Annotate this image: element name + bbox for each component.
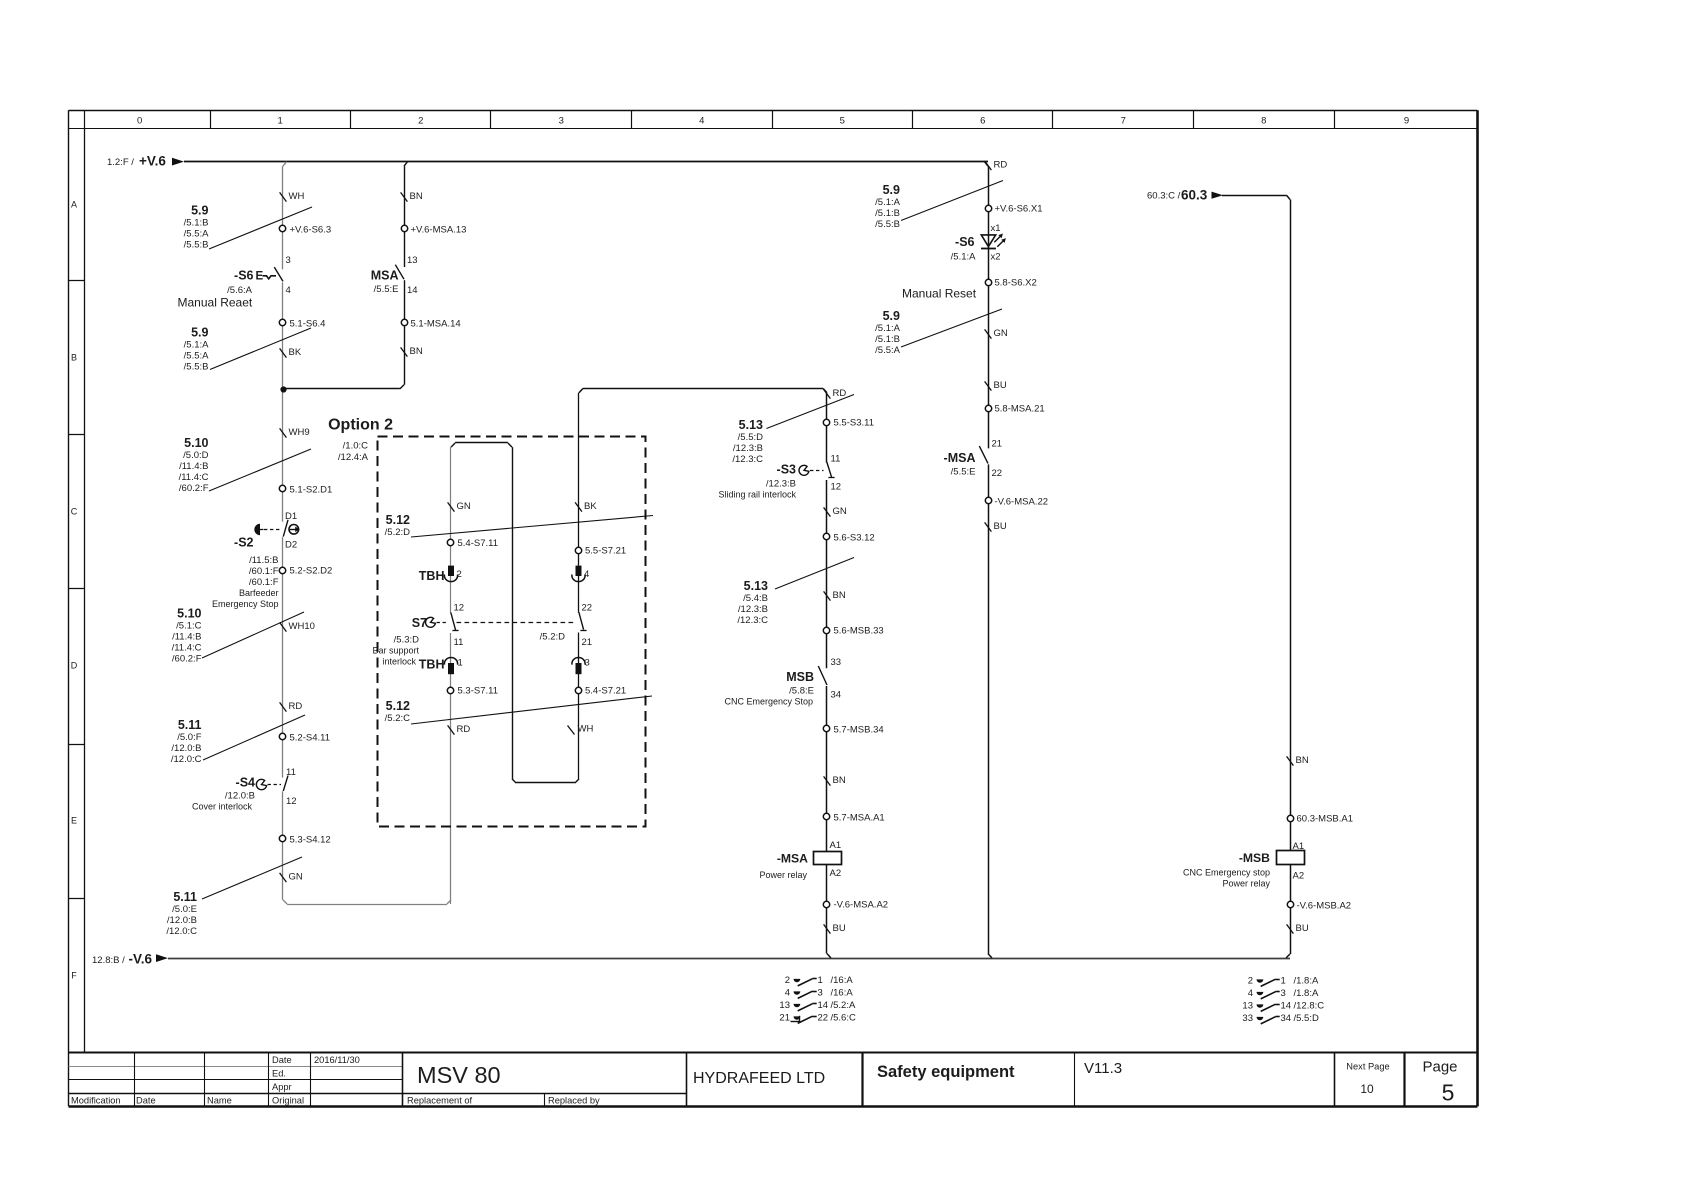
svg-text:5.3-S4.12: 5.3-S4.12	[290, 835, 331, 846]
cross-reference 5.12 (S7 top)	[385, 513, 653, 538]
cross-reference 5.12 (S7 bottom)	[385, 696, 652, 724]
cross-reference 5.13 (S3 bottom)	[737, 558, 854, 627]
svg-text:TBH: TBH	[419, 569, 445, 583]
svg-text:/5.1:A: /5.1:A	[951, 252, 976, 263]
svg-text:x2: x2	[991, 252, 1001, 263]
svg-text:/5.5:A: /5.5:A	[875, 345, 900, 356]
svg-text:/1.0:C: /1.0:C	[343, 441, 368, 452]
wire colour mark BN	[401, 346, 423, 357]
svg-text:BU: BU	[1296, 923, 1309, 934]
svg-text:33: 33	[1242, 1013, 1253, 1024]
svg-text:+V.6-S6.X1: +V.6-S6.X1	[995, 204, 1043, 215]
terminal 60.3-MSB.A1	[1287, 814, 1353, 825]
LED indicator -S6 X1/X2	[951, 223, 1006, 263]
cross-reference 5.11 (S4 bottom)	[166, 857, 302, 937]
svg-text:D2: D2	[285, 540, 297, 551]
wire colour mark WH9	[280, 427, 310, 438]
terminal 5.2-S4.11	[279, 733, 330, 744]
svg-text:WH: WH	[578, 724, 594, 735]
cross-reference 5.9 (right bottom)	[875, 309, 1002, 356]
svg-text:BU: BU	[994, 380, 1007, 391]
svg-text:/12.3:C: /12.3:C	[732, 454, 763, 465]
svg-text:/11.4:B: /11.4:B	[172, 632, 201, 643]
svg-text:C: C	[71, 506, 78, 516]
svg-text:/5.8:E: /5.8:E	[789, 686, 814, 697]
svg-text:HYDRAFEED LTD: HYDRAFEED LTD	[693, 1070, 825, 1087]
svg-text:BN: BN	[833, 775, 846, 786]
cross-reference 5.11 (S4 top)	[171, 715, 305, 765]
svg-text:CNC Emergency Stop: CNC Emergency Stop	[724, 697, 813, 707]
terminal 5.7-MSB.34	[823, 725, 883, 736]
svg-text:/60.1:F: /60.1:F	[249, 577, 279, 588]
svg-text:11: 11	[454, 637, 464, 648]
svg-text:V11.3: V11.3	[1084, 1060, 1122, 1077]
svg-text:/12.3:B: /12.3:B	[733, 443, 763, 454]
svg-text:/5.5:B: /5.5:B	[184, 240, 209, 251]
svg-text:/5.2:D: /5.2:D	[385, 527, 410, 538]
svg-text:-S3: -S3	[777, 463, 797, 477]
svg-text:E: E	[256, 271, 264, 283]
terminal +V.6-S6.X1	[985, 204, 1042, 215]
plug connector TBH pins 4/3 (right)	[572, 566, 590, 675]
svg-text:BK: BK	[584, 501, 597, 512]
svg-text:0: 0	[137, 115, 142, 126]
svg-text:5.2-S2.D2: 5.2-S2.D2	[290, 566, 333, 577]
svg-text:WH10: WH10	[289, 621, 315, 632]
svg-text:/5.5:B: /5.5:B	[184, 362, 209, 373]
svg-text:5.9: 5.9	[883, 183, 900, 197]
svg-text:5.1-MSA.14: 5.1-MSA.14	[411, 319, 461, 330]
svg-text:5.13: 5.13	[744, 579, 768, 593]
svg-text:5.10: 5.10	[184, 436, 208, 450]
terminal -V.6-MSA.A2	[823, 900, 888, 911]
wire colour mark WH10	[280, 621, 315, 632]
svg-text:BN: BN	[1296, 755, 1309, 766]
terminal 5.5-S3.11	[823, 418, 874, 429]
svg-text:2: 2	[1248, 975, 1253, 986]
svg-text:1.2:F /: 1.2:F /	[107, 157, 134, 168]
svg-text:14: 14	[407, 285, 418, 296]
terminal 5.1-S6.4	[279, 319, 325, 330]
svg-text:CNC Emergency stop: CNC Emergency stop	[1183, 867, 1270, 877]
svg-text:1: 1	[278, 115, 283, 126]
svg-text:/5.5:D: /5.5:D	[738, 432, 763, 443]
svg-text:5.8-S6.X2: 5.8-S6.X2	[995, 278, 1037, 289]
svg-text:-MSA: -MSA	[944, 451, 976, 465]
svg-text:5.7-MSB.34: 5.7-MSB.34	[834, 725, 884, 736]
svg-text:14: 14	[818, 1000, 829, 1011]
svg-text:/5.1:B: /5.1:B	[184, 218, 209, 229]
terminal -V.6-MSB.A2	[1287, 901, 1351, 912]
svg-text:5.12: 5.12	[386, 699, 410, 713]
svg-text:/5.1:C: /5.1:C	[176, 621, 201, 632]
svg-text:/12.0:C: /12.0:C	[166, 926, 197, 937]
svg-text:/12.4:A: /12.4:A	[338, 452, 369, 463]
svg-text:3: 3	[818, 987, 823, 998]
svg-text:BU: BU	[994, 521, 1007, 532]
contact MSA 13/14 (self holding)	[371, 255, 418, 296]
svg-text:-S2: -S2	[234, 536, 254, 550]
svg-text:3: 3	[286, 255, 291, 266]
svg-text:Cover interlock: Cover interlock	[192, 802, 253, 812]
svg-text:5: 5	[1442, 1080, 1455, 1106]
svg-text:Next Page: Next Page	[1346, 1062, 1389, 1072]
svg-text:/16:A: /16:A	[831, 975, 854, 986]
svg-text:F: F	[71, 970, 77, 980]
title block	[69, 1053, 1478, 1107]
terminal +V.6-S6.3	[279, 225, 331, 236]
svg-text:5.11: 5.11	[173, 890, 197, 904]
svg-text:5.3-S7.11: 5.3-S7.11	[458, 686, 499, 697]
svg-text:/60.2:F: /60.2:F	[179, 483, 209, 494]
svg-text:A: A	[71, 199, 77, 209]
contact MSB 33/34 CNC emergency stop	[724, 657, 841, 707]
wire colour mark BN	[824, 775, 846, 786]
Option 2 dashed boundary box	[328, 417, 645, 827]
svg-text:RD: RD	[289, 701, 303, 712]
terminal 5.6-MSB.33	[823, 626, 883, 637]
svg-text:5.11: 5.11	[178, 718, 202, 732]
terminal 5.1-S2.D1	[279, 485, 332, 496]
svg-text:RD: RD	[457, 724, 471, 735]
svg-text:/60.2:F: /60.2:F	[172, 654, 202, 665]
wire colour mark BK	[575, 501, 597, 512]
svg-text:/60.1:F: /60.1:F	[249, 566, 279, 577]
svg-text:4: 4	[1248, 988, 1253, 999]
svg-text:5.1-S6.4: 5.1-S6.4	[290, 319, 326, 330]
svg-text:MSV 80: MSV 80	[417, 1062, 501, 1088]
cross-reference 5.9 (right top)	[875, 181, 1003, 231]
svg-text:D: D	[71, 660, 78, 670]
svg-text:/12.0:B: /12.0:B	[171, 743, 201, 754]
terminal 5.1-MSA.14	[401, 319, 460, 330]
svg-text:/5.1:B: /5.1:B	[875, 334, 900, 345]
wire branch LED/MSA-21-22 (x=988)	[984, 162, 992, 958]
svg-text:/5.5:E: /5.5:E	[374, 284, 399, 295]
svg-text:RD: RD	[833, 388, 847, 399]
svg-text:E: E	[71, 815, 77, 825]
svg-text:9: 9	[1404, 115, 1409, 126]
svg-text:RD: RD	[994, 160, 1008, 171]
wire branch 2 (MSA 13/14 reset, x=404)	[283, 162, 408, 389]
svg-text:A2: A2	[1293, 871, 1305, 882]
svg-text:22: 22	[818, 1012, 829, 1023]
svg-text:-S6: -S6	[234, 269, 254, 283]
wire S7 left branch (x=451)	[450, 447, 452, 904]
svg-text:Sliding rail interlock: Sliding rail interlock	[718, 490, 796, 500]
contact -MSA 21/22 (indicator path)	[944, 439, 1003, 480]
svg-text:/5.2:C: /5.2:C	[385, 713, 410, 724]
svg-text:/11.4:C: /11.4:C	[179, 472, 209, 483]
svg-text:/16:A: /16:A	[831, 987, 854, 998]
svg-text:-V.6-MSB.A2: -V.6-MSB.A2	[1297, 901, 1352, 912]
svg-text:/5.5:B: /5.5:B	[875, 219, 900, 230]
terminal 5.6-S3.12	[823, 533, 874, 544]
svg-text:interlock: interlock	[382, 657, 416, 667]
svg-text:MSB: MSB	[786, 670, 814, 684]
wire colour mark BU	[985, 521, 1007, 532]
svg-text:12: 12	[286, 796, 297, 807]
svg-text:4: 4	[699, 115, 704, 126]
svg-text:5.8-MSA.21: 5.8-MSA.21	[995, 404, 1045, 415]
svg-text:12: 12	[831, 482, 842, 493]
svg-text:/5.5:E: /5.5:E	[951, 467, 976, 478]
svg-text:3: 3	[585, 658, 590, 669]
svg-text:-S4: -S4	[236, 776, 256, 790]
svg-text:4: 4	[785, 987, 790, 998]
svg-text:GN: GN	[457, 501, 471, 512]
svg-text:/12.3:B: /12.3:B	[766, 479, 796, 490]
svg-text:Manual Reaet: Manual Reaet	[178, 296, 253, 310]
svg-text:5.9: 5.9	[191, 204, 208, 218]
wire colour mark WH	[280, 191, 305, 202]
wire colour mark BN	[1287, 755, 1309, 766]
svg-text:14: 14	[1281, 1000, 1292, 1011]
svg-text:5.5-S3.11: 5.5-S3.11	[834, 418, 875, 429]
svg-text:5.13: 5.13	[739, 418, 763, 432]
svg-text:2: 2	[457, 569, 462, 580]
svg-text:Manual Reset: Manual Reset	[902, 287, 977, 301]
wire S7 right branch (x=579)	[578, 393, 580, 779]
junction node at (283,389)	[280, 386, 286, 392]
svg-text:/1.8:A: /1.8:A	[1294, 988, 1319, 999]
svg-text:GN: GN	[289, 872, 303, 883]
svg-text:/12.3:C: /12.3:C	[737, 615, 768, 626]
svg-text:/5.1:A: /5.1:A	[184, 340, 209, 351]
svg-text:3: 3	[559, 115, 564, 126]
svg-text:2: 2	[785, 975, 790, 986]
terminal +V.6-MSA.13	[401, 225, 466, 236]
contact mirror table -MSA	[779, 975, 856, 1024]
svg-text:Date: Date	[272, 1055, 292, 1065]
svg-text:1: 1	[818, 975, 823, 986]
svg-text:GN: GN	[833, 506, 847, 517]
svg-text:/1.8:A: /1.8:A	[1294, 975, 1319, 986]
svg-text:Page: Page	[1422, 1059, 1457, 1076]
svg-text:1: 1	[1281, 975, 1286, 986]
svg-text:34: 34	[1281, 1013, 1292, 1024]
svg-text:Safety equipment: Safety equipment	[877, 1063, 1015, 1081]
svg-text:2: 2	[418, 115, 423, 126]
svg-text:BU: BU	[833, 923, 846, 934]
wire colour mark GN	[448, 501, 471, 512]
wire U-link between S7 branches	[451, 443, 579, 784]
svg-text:5.4-S7.11: 5.4-S7.11	[458, 538, 499, 549]
svg-text:4: 4	[286, 285, 291, 296]
wire colour mark RD	[824, 388, 847, 399]
svg-text:5.1-S2.D1: 5.1-S2.D1	[290, 485, 333, 496]
cross-reference 5.10 (S2 bottom)	[172, 607, 304, 665]
svg-text:21: 21	[779, 1012, 790, 1023]
svg-text:/12.0:B: /12.0:B	[167, 915, 197, 926]
terminal 5.2-S2.D2	[279, 566, 332, 577]
svg-text:10: 10	[1360, 1082, 1374, 1096]
svg-text:/5.5:A: /5.5:A	[184, 229, 209, 240]
svg-text:21: 21	[582, 637, 593, 648]
svg-text:BN: BN	[410, 191, 423, 202]
wire colour mark BU	[824, 923, 846, 934]
svg-text:/11.4:B: /11.4:B	[179, 461, 208, 472]
wire branch S3/MSB/MSA-coil (x=827)	[827, 393, 831, 958]
svg-text:22: 22	[582, 603, 593, 614]
svg-text:Appr: Appr	[272, 1082, 292, 1092]
svg-text:Barfeeder: Barfeeder	[239, 588, 279, 598]
svg-text:/5.6:C: /5.6:C	[831, 1012, 856, 1023]
svg-text:-S6: -S6	[955, 235, 975, 249]
svg-text:/12.3:B: /12.3:B	[738, 604, 768, 615]
terminal -V.6-MSA.22	[985, 497, 1048, 508]
svg-text:/5.1:A: /5.1:A	[875, 197, 900, 208]
svg-text:34: 34	[831, 690, 842, 701]
svg-text:5.2-S4.11: 5.2-S4.11	[290, 733, 331, 744]
svg-text:5.7-MSA.A1: 5.7-MSA.A1	[834, 813, 885, 824]
svg-text:x1: x1	[991, 223, 1001, 234]
svg-text:5.10: 5.10	[177, 607, 201, 621]
svg-text:/5.0:D: /5.0:D	[183, 450, 208, 461]
svg-text:A2: A2	[830, 868, 842, 879]
svg-text:4: 4	[584, 569, 589, 580]
wire colour mark GN	[824, 506, 847, 517]
svg-text:5: 5	[840, 115, 845, 126]
svg-text:/5.0:F: /5.0:F	[177, 732, 201, 743]
svg-text:60.3: 60.3	[1181, 187, 1208, 202]
svg-text:TBH: TBH	[419, 658, 445, 672]
terminal 5.4-S7.11	[447, 538, 498, 549]
svg-text:13: 13	[407, 255, 418, 266]
cross-reference 5.9 (S6 bottom)	[184, 326, 311, 373]
wire colour mark BU	[985, 380, 1007, 391]
svg-text:13: 13	[779, 1000, 790, 1011]
svg-text:60.3-MSB.A1: 60.3-MSB.A1	[1297, 814, 1354, 825]
-V.6 power rail	[92, 952, 1290, 967]
svg-text:+V.6: +V.6	[139, 154, 166, 169]
svg-text:Ed.: Ed.	[272, 1069, 286, 1079]
svg-text:Replacement of: Replacement of	[407, 1096, 473, 1106]
svg-text:5.6-S3.12: 5.6-S3.12	[834, 533, 875, 544]
svg-text:/12.0:C: /12.0:C	[171, 754, 202, 765]
svg-text:5.4-S7.21: 5.4-S7.21	[585, 686, 626, 697]
svg-text:12.8:B /: 12.8:B /	[92, 955, 125, 966]
terminal 5.4-S7.21	[575, 686, 626, 697]
svg-text:/5.2:A: /5.2:A	[831, 1000, 856, 1011]
terminal 5.7-MSA.A1	[823, 813, 884, 824]
svg-text:/11.5:B: /11.5:B	[249, 555, 278, 566]
svg-text:11: 11	[831, 454, 841, 465]
relay coil -MSA	[759, 840, 841, 880]
svg-text:/5.2:D: /5.2:D	[540, 632, 565, 643]
terminal 5.5-S7.21	[575, 546, 626, 557]
svg-text:Power relay: Power relay	[1222, 878, 1270, 888]
svg-text:Bar support: Bar support	[372, 646, 419, 656]
svg-text:Date: Date	[136, 1096, 156, 1106]
wire colour mark WH (S7 right)	[568, 724, 594, 735]
terminal 5.8-MSA.21	[985, 404, 1044, 415]
svg-text:/5.5:A: /5.5:A	[184, 351, 209, 362]
svg-text:Power relay: Power relay	[759, 870, 807, 880]
svg-text:5.12: 5.12	[386, 513, 410, 527]
svg-text:-MSB: -MSB	[1239, 851, 1270, 865]
svg-text:/5.3:D: /5.3:D	[394, 635, 419, 646]
svg-text:/5.5:D: /5.5:D	[1294, 1013, 1319, 1024]
svg-text:5.6-MSB.33: 5.6-MSB.33	[834, 626, 884, 637]
plug connector TBH pins 2/1 (left)	[419, 566, 463, 675]
svg-text:+V.6-S6.3: +V.6-S6.3	[290, 225, 332, 236]
wire colour mark BN	[401, 191, 423, 202]
interlock switch -S4 cover contact 11/12	[192, 767, 297, 812]
svg-text:7: 7	[1121, 115, 1126, 126]
svg-text:60.3:C /: 60.3:C /	[1147, 191, 1181, 202]
svg-text:21: 21	[992, 439, 1003, 450]
svg-text:Modification: Modification	[71, 1096, 121, 1106]
svg-text:S7: S7	[412, 616, 427, 630]
terminal 5.8-S6.X2	[985, 278, 1036, 289]
cross-reference 5.10 (S2 top)	[179, 436, 311, 494]
terminal 5.3-S4.12	[279, 835, 330, 846]
svg-text:A1: A1	[830, 840, 842, 851]
svg-text:/5.4:B: /5.4:B	[743, 593, 768, 604]
svg-text:MSA: MSA	[371, 269, 399, 283]
svg-text:-MSA: -MSA	[777, 851, 808, 865]
svg-text:+V.6-MSA.13: +V.6-MSA.13	[411, 225, 467, 236]
+V.6 power rail	[107, 154, 988, 169]
svg-text:5.5-S7.21: 5.5-S7.21	[585, 546, 626, 557]
svg-text:8: 8	[1261, 115, 1266, 126]
relay coil -MSB	[1183, 841, 1305, 888]
wire branch 1 (S6/S2/S4 chain, x=283)	[280, 162, 451, 905]
wire colour mark BN	[824, 590, 846, 601]
svg-text:/5.0:E: /5.0:E	[172, 904, 197, 915]
wire colour mark GN	[280, 872, 303, 883]
svg-text:D1: D1	[285, 511, 297, 522]
svg-text:-V.6-MSA.A2: -V.6-MSA.A2	[834, 900, 889, 911]
svg-text:BK: BK	[289, 347, 302, 358]
terminal 5.3-S7.11	[447, 686, 498, 697]
svg-text:Option 2: Option 2	[328, 417, 393, 434]
svg-text:BN: BN	[833, 590, 846, 601]
svg-text:-V.6: -V.6	[129, 952, 153, 967]
svg-text:22: 22	[992, 468, 1003, 479]
svg-text:3: 3	[1281, 988, 1286, 999]
svg-text:2016/11/30: 2016/11/30	[314, 1055, 360, 1065]
svg-text:Original: Original	[272, 1096, 304, 1106]
cross-reference 5.9 (S6 top)	[184, 204, 312, 251]
contact mirror table -MSB	[1242, 975, 1324, 1024]
svg-text:6: 6	[980, 115, 985, 126]
svg-text:Emergency Stop: Emergency Stop	[212, 599, 279, 609]
svg-text:BN: BN	[410, 346, 423, 357]
wire colour mark GN	[985, 328, 1008, 339]
svg-text:5.9: 5.9	[191, 326, 208, 340]
svg-text:-V.6-MSA.22: -V.6-MSA.22	[995, 497, 1049, 508]
svg-text:/5.1:A: /5.1:A	[875, 323, 900, 334]
wire colour mark RD	[985, 160, 1008, 171]
emergency stop -S2 Barfeeder contact D1/D2	[212, 511, 300, 609]
svg-text:/12.8:C: /12.8:C	[1294, 1000, 1325, 1011]
wire branch MSB coil (x=1290)	[1286, 195, 1290, 958]
svg-text:/5.1:B: /5.1:B	[875, 208, 900, 219]
svg-text:5.9: 5.9	[883, 309, 900, 323]
svg-text:/11.4:C: /11.4:C	[172, 643, 202, 654]
wire colour mark RD	[280, 701, 303, 712]
interlock switch -S3 sliding rail contact 11/12	[718, 454, 841, 500]
svg-text:1: 1	[458, 658, 463, 669]
svg-text:GN: GN	[994, 328, 1008, 339]
60.3 outgoing reference arrow	[1147, 187, 1287, 202]
svg-text:13: 13	[1242, 1000, 1253, 1011]
svg-text:33: 33	[831, 657, 842, 668]
cross-reference 5.13 (S3 top)	[732, 395, 854, 466]
svg-text:/12.0:B: /12.0:B	[225, 791, 255, 802]
